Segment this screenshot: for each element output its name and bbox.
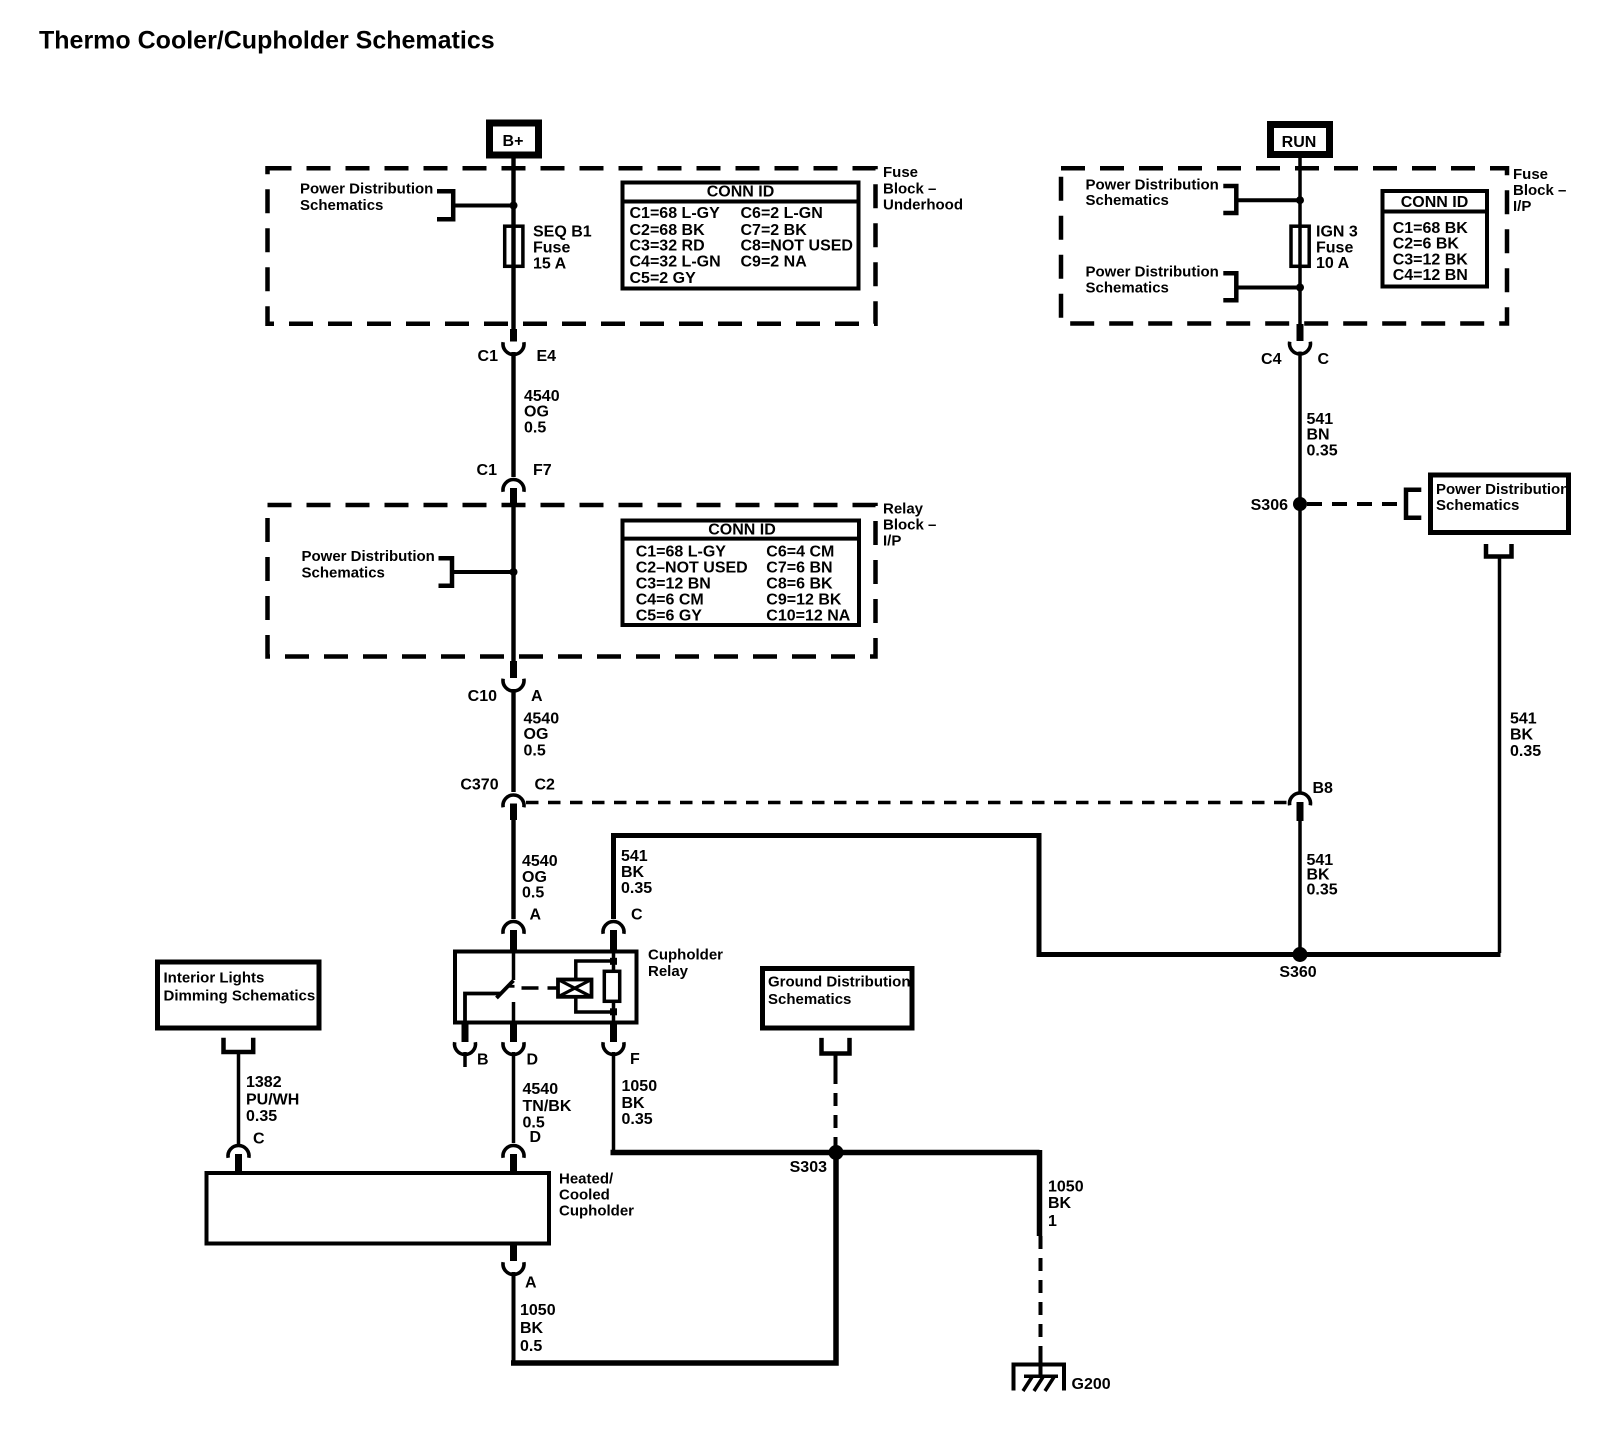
svg-text:C1=68 L-GY: C1=68 L-GY xyxy=(630,205,721,222)
svg-text:C3=32 RD: C3=32 RD xyxy=(630,238,705,255)
svg-text:A: A xyxy=(531,688,543,705)
svg-text:Power Distribution: Power Distribution xyxy=(300,181,433,198)
svg-text:OG: OG xyxy=(524,726,549,743)
svg-text:C10=12 NA: C10=12 NA xyxy=(766,608,850,625)
svg-text:BK: BK xyxy=(621,864,645,881)
svg-text:Interior Lights: Interior Lights xyxy=(164,969,265,986)
svg-text:BK: BK xyxy=(1048,1195,1072,1212)
svg-text:C2=6 BK: C2=6 BK xyxy=(1393,236,1460,253)
svg-text:CONN ID: CONN ID xyxy=(708,522,776,539)
svg-text:C4=32 L-GN: C4=32 L-GN xyxy=(630,253,721,270)
svg-text:4540: 4540 xyxy=(524,710,560,727)
svg-text:C8=6 BK: C8=6 BK xyxy=(766,576,833,593)
svg-text:F7: F7 xyxy=(533,462,552,479)
svg-text:4540: 4540 xyxy=(524,388,560,405)
svg-text:0.35: 0.35 xyxy=(621,880,652,897)
svg-text:Dimming Schematics: Dimming Schematics xyxy=(164,987,316,1004)
svg-text:C: C xyxy=(253,1131,265,1148)
svg-text:Power Distribution: Power Distribution xyxy=(302,548,435,565)
svg-text:C6=2 L-GN: C6=2 L-GN xyxy=(741,205,823,222)
svg-text:1382: 1382 xyxy=(246,1074,282,1091)
svg-text:C370: C370 xyxy=(460,777,498,794)
svg-text:C4=12 BN: C4=12 BN xyxy=(1393,267,1468,284)
svg-text:C9=2 NA: C9=2 NA xyxy=(741,253,808,270)
svg-text:D: D xyxy=(527,1051,539,1068)
svg-text:0.5: 0.5 xyxy=(522,885,544,902)
svg-text:A: A xyxy=(530,907,542,924)
svg-text:C1: C1 xyxy=(477,462,498,479)
svg-text:C: C xyxy=(1318,351,1330,368)
svg-text:C9=12 BK: C9=12 BK xyxy=(766,592,842,609)
svg-text:Block –: Block – xyxy=(1513,182,1566,199)
svg-text:1050: 1050 xyxy=(1048,1178,1084,1195)
svg-text:Schematics: Schematics xyxy=(1086,279,1169,296)
svg-text:B: B xyxy=(477,1051,489,1068)
svg-text:I/P: I/P xyxy=(1513,198,1531,215)
svg-text:C1=68 BK: C1=68 BK xyxy=(1393,220,1469,237)
svg-text:0.35: 0.35 xyxy=(246,1108,277,1125)
svg-text:Ground Distribution: Ground Distribution xyxy=(768,974,910,991)
svg-text:Fuse: Fuse xyxy=(1513,166,1548,183)
svg-text:Block –: Block – xyxy=(883,181,936,198)
svg-text:1050: 1050 xyxy=(622,1078,658,1095)
svg-text:C5=2 GY: C5=2 GY xyxy=(630,270,697,287)
svg-text:Fuse: Fuse xyxy=(533,240,570,257)
svg-text:Schematics: Schematics xyxy=(768,991,851,1008)
svg-text:0.35: 0.35 xyxy=(622,1111,653,1128)
svg-text:C3=12 BN: C3=12 BN xyxy=(636,576,711,593)
svg-text:10 A: 10 A xyxy=(1316,255,1350,272)
svg-text:Cooled: Cooled xyxy=(559,1186,610,1203)
svg-text:4540: 4540 xyxy=(523,1081,559,1098)
svg-text:S303: S303 xyxy=(790,1159,827,1176)
svg-text:S360: S360 xyxy=(1279,964,1316,981)
svg-text:Schematics: Schematics xyxy=(300,197,383,214)
svg-text:Block –: Block – xyxy=(883,516,936,533)
svg-text:OG: OG xyxy=(522,869,547,886)
svg-text:Thermo Cooler/Cupholder Schema: Thermo Cooler/Cupholder Schematics xyxy=(39,27,495,55)
svg-text:0.5: 0.5 xyxy=(520,1338,542,1355)
svg-text:C2=68 BK: C2=68 BK xyxy=(630,222,706,239)
svg-text:0.35: 0.35 xyxy=(1510,743,1541,760)
svg-text:C3=12 BK: C3=12 BK xyxy=(1393,251,1469,268)
svg-text:1050: 1050 xyxy=(520,1302,556,1319)
svg-text:0.5: 0.5 xyxy=(524,419,546,436)
svg-text:CONN ID: CONN ID xyxy=(1401,194,1469,211)
svg-text:Cupholder: Cupholder xyxy=(648,947,723,964)
svg-text:E4: E4 xyxy=(537,348,557,365)
svg-text:C7=6 BN: C7=6 BN xyxy=(766,560,832,577)
svg-text:0.35: 0.35 xyxy=(1307,443,1338,460)
svg-text:Relay: Relay xyxy=(883,500,924,517)
svg-text:Heated/: Heated/ xyxy=(559,1170,614,1187)
svg-text:BK: BK xyxy=(520,1320,544,1337)
svg-text:B8: B8 xyxy=(1313,780,1334,797)
svg-text:541: 541 xyxy=(1510,710,1537,727)
svg-text:B+: B+ xyxy=(503,133,524,150)
svg-text:OG: OG xyxy=(524,404,549,421)
svg-text:PU/WH: PU/WH xyxy=(246,1091,299,1108)
svg-text:A: A xyxy=(525,1275,537,1292)
svg-text:C2–NOT USED: C2–NOT USED xyxy=(636,560,748,577)
svg-text:D: D xyxy=(530,1129,542,1146)
svg-text:C8=NOT USED: C8=NOT USED xyxy=(741,238,853,255)
svg-text:C4=6 CM: C4=6 CM xyxy=(636,592,704,609)
svg-text:IGN 3: IGN 3 xyxy=(1316,224,1358,241)
svg-text:S306: S306 xyxy=(1251,497,1288,514)
svg-text:15 A: 15 A xyxy=(533,255,567,272)
svg-text:Power Distribution: Power Distribution xyxy=(1086,176,1219,193)
svg-text:BK: BK xyxy=(622,1095,646,1112)
svg-text:SEQ B1: SEQ B1 xyxy=(533,224,592,241)
svg-text:0.5: 0.5 xyxy=(524,742,546,759)
svg-text:G200: G200 xyxy=(1072,1376,1111,1393)
svg-text:Underhood: Underhood xyxy=(883,196,963,213)
svg-text:C1: C1 xyxy=(478,348,499,365)
svg-text:Power Distribution: Power Distribution xyxy=(1086,264,1219,281)
svg-text:Power Distribution: Power Distribution xyxy=(1436,481,1569,498)
svg-text:0.35: 0.35 xyxy=(1307,882,1338,899)
svg-text:1: 1 xyxy=(1048,1213,1057,1230)
svg-text:4540: 4540 xyxy=(522,853,558,870)
svg-text:RUN: RUN xyxy=(1282,134,1317,151)
svg-text:C: C xyxy=(631,907,643,924)
svg-text:I/P: I/P xyxy=(883,532,901,549)
svg-text:Relay: Relay xyxy=(648,963,689,980)
svg-text:BN: BN xyxy=(1307,427,1330,444)
svg-text:Fuse: Fuse xyxy=(883,164,918,181)
svg-text:Schematics: Schematics xyxy=(1436,497,1519,514)
svg-text:Fuse: Fuse xyxy=(1316,239,1353,256)
svg-text:Schematics: Schematics xyxy=(302,565,385,582)
svg-text:C5=6 GY: C5=6 GY xyxy=(636,608,703,625)
svg-text:C2: C2 xyxy=(535,777,556,794)
svg-text:Schematics: Schematics xyxy=(1086,192,1169,209)
svg-text:BK: BK xyxy=(1510,726,1534,743)
svg-text:C4: C4 xyxy=(1261,351,1282,368)
svg-text:C7=2 BK: C7=2 BK xyxy=(741,222,808,239)
svg-text:541: 541 xyxy=(621,848,648,865)
svg-text:CONN ID: CONN ID xyxy=(707,184,775,201)
svg-text:C10: C10 xyxy=(468,688,497,705)
svg-text:TN/BK: TN/BK xyxy=(523,1098,572,1115)
svg-text:C1=68 L-GY: C1=68 L-GY xyxy=(636,544,727,561)
svg-text:C6=4 CM: C6=4 CM xyxy=(766,544,834,561)
svg-text:Cupholder: Cupholder xyxy=(559,1202,634,1219)
svg-text:F: F xyxy=(630,1051,640,1068)
